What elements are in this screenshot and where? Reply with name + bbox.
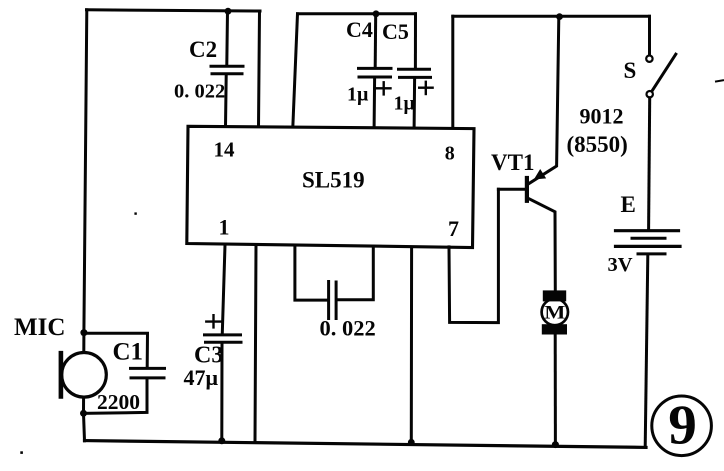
wire middle-rail left leg [293,14,298,128]
capacitor C2 [211,11,243,127]
capacitor C4 [359,14,392,128]
wire top-left rail [87,10,261,11]
node C2 junction [225,8,232,15]
svg-text:1μ: 1μ [394,93,416,115]
node mic bottom junction [80,410,87,417]
node emitter junction [556,13,563,20]
transistor Q1 VT1 [498,17,558,291]
speck artifacts [134,212,136,214]
wire IC pin7 route to base [449,189,498,322]
svg-text:0. 022: 0. 022 [320,316,376,341]
svg-text:9: 9 [668,395,697,457]
svg-text:E: E [621,192,636,217]
svg-text:0. 022: 0. 022 [174,81,225,103]
svg-text:C5: C5 [382,19,409,44]
wire top-right rail [453,15,650,18]
node motor bottom junction [552,441,559,448]
svg-text:47μ: 47μ [184,365,219,390]
microphone MIC [61,353,106,398]
op IC U1 SL519 body [187,126,474,247]
wire left side vertical [84,10,87,441]
wire bottom rail [85,441,647,448]
svg-text:3V: 3V [608,254,633,276]
figure number badge 9 [652,396,712,456]
motor M [542,290,568,444]
svg-text:VT1: VT1 [491,150,534,175]
node C3 bottom junction [218,437,225,444]
node C4 junction [373,10,380,17]
svg-text:SL519: SL519 [302,168,365,193]
wire right-rail left leg to IC pin 8 [451,16,454,128]
svg-text:2200: 2200 [97,390,140,414]
svg-text:MIC: MIC [14,314,65,341]
capacitor C5 [399,14,433,128]
node mic top junction [80,329,87,336]
wire IC pin1 bottom lead [222,245,225,333]
capacitor C3 [205,315,242,440]
svg-text:C2: C2 [189,37,217,62]
switch S [646,16,676,229]
svg-text:1μ: 1μ [347,84,369,106]
svg-text:C1: C1 [113,339,144,366]
svg-text:8: 8 [445,143,455,165]
svg-text:S: S [624,58,637,83]
svg-text:M: M [544,302,565,323]
battery E [616,231,681,448]
wire left-rail right leg to IC pin [259,11,260,128]
svg-text:14: 14 [214,138,236,162]
svg-text:7: 7 [448,216,459,241]
svg-text:9012: 9012 [580,104,624,129]
svg-text:C4: C4 [346,17,373,42]
wire IC fifth bottom lead [410,247,413,442]
wire middle rail [298,12,416,15]
svg-text:1: 1 [219,215,230,240]
wire IC second bottom lead [255,245,256,441]
capacitor 0.022 below IC [295,245,373,319]
node bottom rail junction [408,439,415,446]
capacitor C1 loop [84,333,165,413]
svg-text:(8550): (8550) [567,132,628,157]
